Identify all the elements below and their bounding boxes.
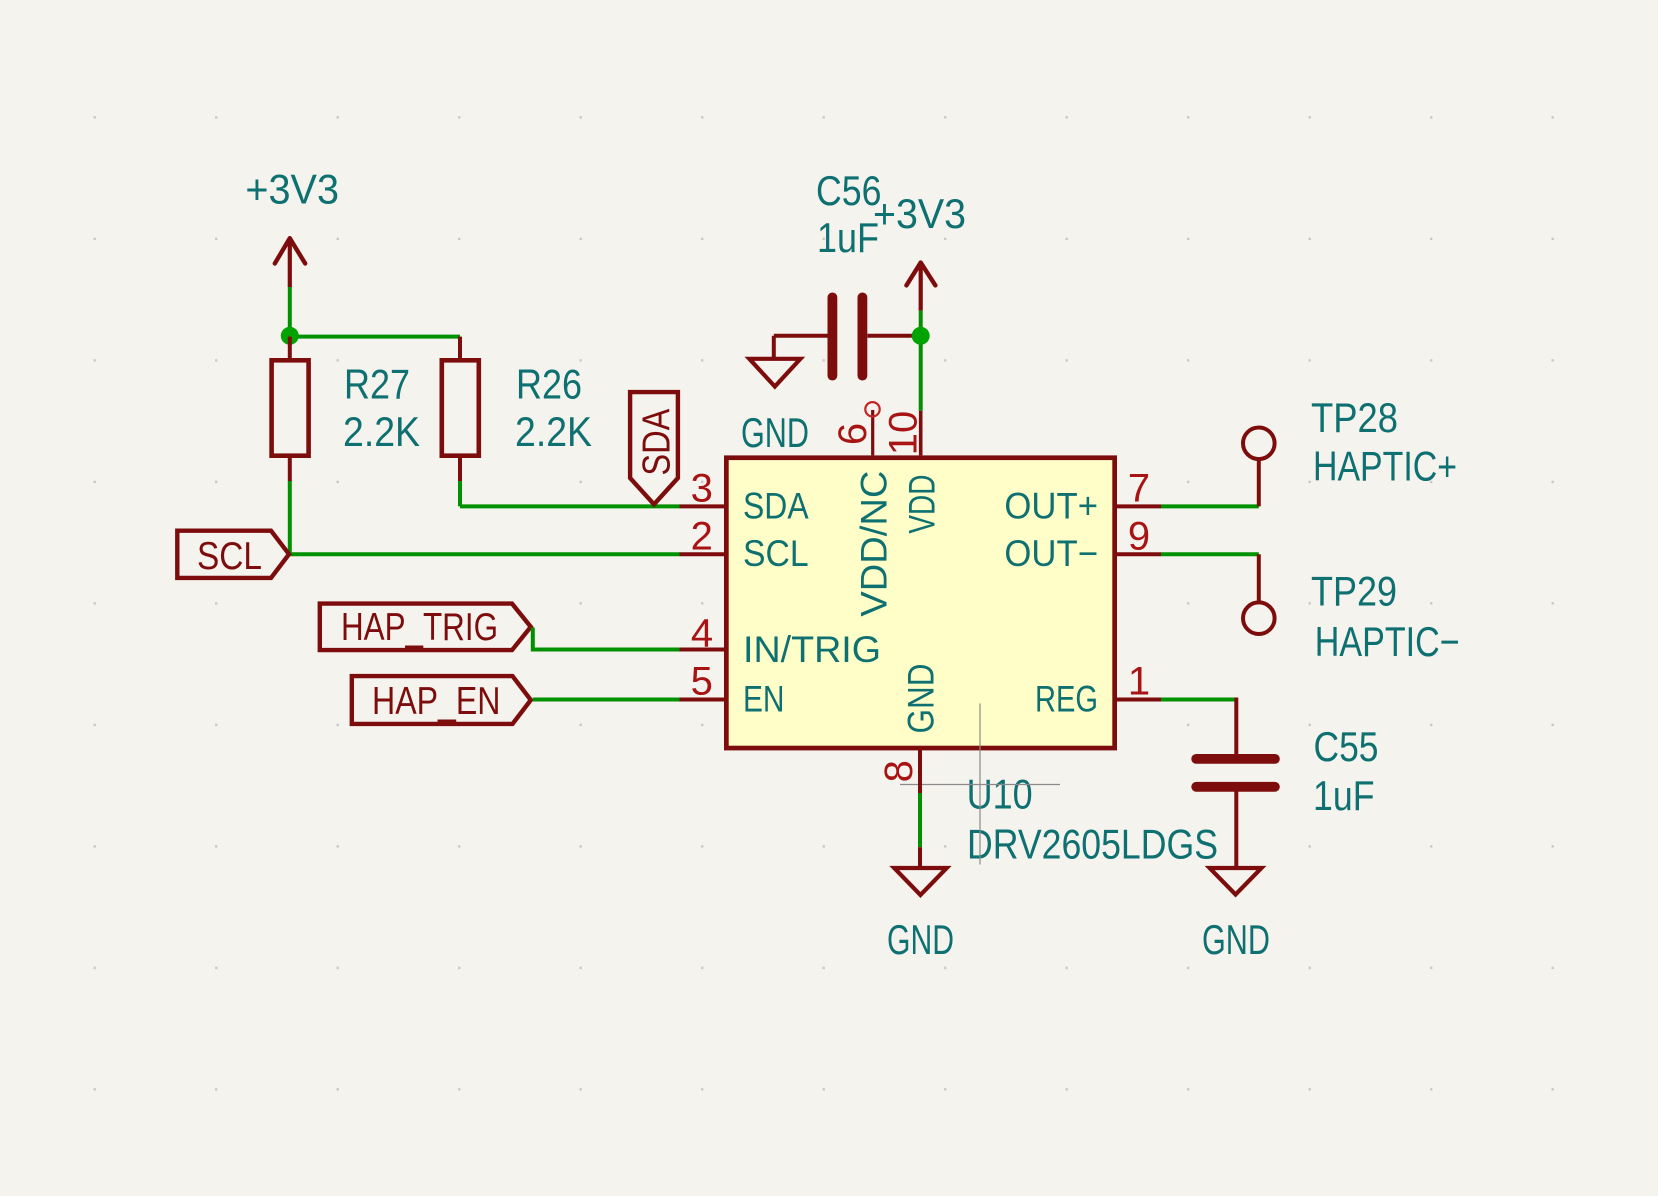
wire pin 8 to ground xyxy=(918,793,922,847)
junction node (+3V3 / C56 / VDD pin 10) xyxy=(912,327,930,345)
test point TP28 xyxy=(1243,394,1457,506)
wire pin 7 to TP28 xyxy=(1161,504,1259,508)
svg-text:2.2K: 2.2K xyxy=(343,408,420,455)
svg-text:SDA: SDA xyxy=(636,409,679,476)
svg-text:HAP_TRIG: HAP_TRIG xyxy=(341,606,498,649)
svg-text:2.2K: 2.2K xyxy=(515,408,592,455)
wire HAP_TRIG elbow xyxy=(533,628,680,650)
junction node (+3V3 / R27 / R26) xyxy=(281,327,299,345)
wire SDA net to pin 3 xyxy=(460,504,680,508)
resistor R27 xyxy=(272,337,421,481)
svg-text:TP29: TP29 xyxy=(1311,568,1397,615)
svg-text:U10: U10 xyxy=(967,770,1033,817)
ground GND (C55) xyxy=(1202,868,1270,963)
pin 1 REG xyxy=(1035,660,1161,720)
svg-text:HAPTIC−: HAPTIC− xyxy=(1315,618,1460,665)
pin 9 OUT- xyxy=(1004,514,1161,574)
svg-text:GND: GND xyxy=(887,916,954,963)
capacitor C55 xyxy=(1191,698,1378,869)
svg-text:TP28: TP28 xyxy=(1311,394,1398,441)
svg-text:1uF: 1uF xyxy=(1313,772,1375,819)
global label HAP_TRIG xyxy=(320,604,531,651)
svg-text:GND: GND xyxy=(901,664,942,734)
pin 7 OUT+ xyxy=(1004,466,1161,526)
svg-text:REG: REG xyxy=(1035,679,1098,720)
capacitor C56 xyxy=(774,167,915,381)
svg-text:GND: GND xyxy=(1202,916,1270,963)
svg-text:C55: C55 xyxy=(1314,723,1379,770)
svg-text:EN: EN xyxy=(743,679,785,720)
wire +3V3 to junction xyxy=(288,287,292,337)
global label SCL xyxy=(177,531,289,578)
svg-text:5: 5 xyxy=(691,660,713,704)
svg-text:SDA: SDA xyxy=(743,485,809,526)
svg-text:2: 2 xyxy=(691,514,713,558)
pin 8 GND xyxy=(877,664,942,794)
svg-text:+3V3: +3V3 xyxy=(245,166,339,213)
wire R27 bottom to SCL xyxy=(288,481,292,554)
svg-text:3: 3 xyxy=(691,466,713,510)
wire junction to R26 top xyxy=(290,335,460,339)
wire SCL to pin 2 xyxy=(290,552,680,556)
wire pin 9 to TP29 xyxy=(1161,552,1259,556)
svg-text:R26: R26 xyxy=(516,361,582,408)
svg-text:VDD/NC: VDD/NC xyxy=(853,471,894,617)
pin 6 VDD/NC xyxy=(831,402,894,617)
ground GND (C56) xyxy=(741,336,809,456)
svg-text:+3V3: +3V3 xyxy=(873,190,966,237)
resistor R26 xyxy=(442,337,592,481)
global label SDA (vertical) xyxy=(630,392,678,504)
svg-text:OUT−: OUT− xyxy=(1004,533,1098,574)
svg-text:4: 4 xyxy=(691,612,713,656)
svg-text:6: 6 xyxy=(831,423,875,445)
pin 4 IN/TRIG xyxy=(680,612,882,671)
svg-text:HAP_EN: HAP_EN xyxy=(372,680,501,723)
pin 3 SDA xyxy=(680,466,809,526)
pin 10 VDD xyxy=(881,411,942,534)
svg-text:VDD: VDD xyxy=(901,475,942,534)
svg-text:8: 8 xyxy=(877,760,921,782)
cursor crosshair xyxy=(900,704,1060,865)
svg-text:SCL: SCL xyxy=(743,533,809,574)
svg-text:1uF: 1uF xyxy=(817,214,879,261)
svg-text:GND: GND xyxy=(741,409,809,456)
wire pin 1 to C55 xyxy=(1161,698,1236,702)
power flag +3V3 (right) xyxy=(873,190,966,310)
wire +3V3 down to pin 10 xyxy=(919,311,923,411)
pin 5 EN xyxy=(680,660,785,720)
svg-text:C56: C56 xyxy=(816,167,882,214)
IC U10 DRV2605LDGS xyxy=(726,458,1218,868)
svg-text:10: 10 xyxy=(881,411,925,456)
svg-text:DRV2605LDGS: DRV2605LDGS xyxy=(967,821,1218,868)
pin 2 SCL xyxy=(680,514,809,574)
test point TP29 xyxy=(1243,554,1460,665)
svg-text:OUT+: OUT+ xyxy=(1004,485,1098,526)
svg-text:IN/TRIG: IN/TRIG xyxy=(743,629,881,670)
power flag +3V3 (left) xyxy=(245,166,339,287)
svg-text:1: 1 xyxy=(1128,660,1150,704)
svg-text:9: 9 xyxy=(1128,514,1150,558)
wire HAP_EN to pin 5 xyxy=(533,698,680,702)
svg-text:SCL: SCL xyxy=(197,535,262,578)
wire R26 bottom to SDA net xyxy=(458,481,462,506)
global label HAP_EN xyxy=(352,676,531,724)
svg-text:R27: R27 xyxy=(344,361,410,408)
ground GND (pin 8) xyxy=(887,847,954,963)
svg-text:7: 7 xyxy=(1128,466,1150,510)
svg-text:HAPTIC+: HAPTIC+ xyxy=(1313,443,1457,490)
